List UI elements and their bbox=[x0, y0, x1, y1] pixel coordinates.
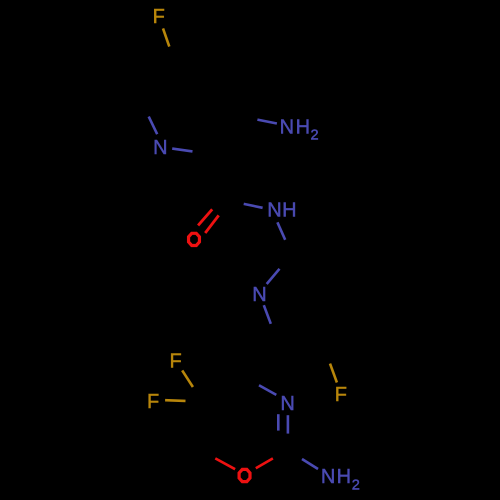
svg-text:F: F bbox=[169, 351, 181, 373]
svg-text:N: N bbox=[153, 137, 167, 159]
bond O2-C2'' (half, oxygen side) bbox=[256, 458, 273, 468]
bond C5''-F4 (half, fluorine side) bbox=[165, 399, 185, 402]
bond N3=C2'' outer line (half, nitrogen side) bbox=[287, 415, 290, 433]
svg-text:F: F bbox=[335, 384, 347, 406]
bond N2-C2' (half, nitrogen side) bbox=[267, 269, 280, 284]
bond C2''-NH2 (half, nitrogen side) bbox=[302, 459, 318, 469]
bond NH-C2' (half, nitrogen side) bbox=[277, 222, 285, 240]
svg-text:F: F bbox=[147, 391, 159, 413]
svg-text:N: N bbox=[280, 393, 294, 415]
svg-text:H: H bbox=[296, 116, 310, 138]
bond N3=C2'' inner line (half, nitrogen side) bbox=[277, 414, 280, 430]
bond N1-C2 (half, nitrogen side) bbox=[172, 149, 192, 152]
bond C7=O1 line b (half, oxygen side) bbox=[205, 215, 219, 233]
svg-text:2: 2 bbox=[311, 128, 319, 144]
bond C6-N1 (half, nitrogen side) bbox=[149, 117, 158, 135]
bond C5''-F3 (half, fluorine side) bbox=[182, 370, 193, 387]
bond C6''-O2 (half, oxygen side) bbox=[215, 458, 235, 469]
atom O2 (oxazine ring oxygen) bbox=[239, 469, 250, 481]
svg-text:N: N bbox=[267, 200, 281, 222]
bond C4''-N3 (half, nitrogen side) bbox=[259, 385, 276, 395]
bond C5-F1 (half, fluorine side) bbox=[163, 28, 169, 46]
bond C7=O1 line a (half, oxygen side) bbox=[198, 209, 212, 225]
atom O1 (carbonyl oxygen) bbox=[189, 233, 200, 245]
svg-text:N: N bbox=[280, 116, 294, 138]
svg-text:2: 2 bbox=[352, 477, 360, 493]
bond N2-C5' (half, nitrogen side) bbox=[264, 305, 271, 324]
svg-text:H: H bbox=[337, 466, 351, 488]
bond C7-NH (half, nitrogen side) bbox=[244, 204, 263, 208]
svg-text:N: N bbox=[321, 466, 335, 488]
bond C4'-F2 (half, fluorine side) bbox=[330, 364, 337, 383]
svg-text:N: N bbox=[252, 284, 266, 306]
bond C3-NH2 (half, nitrogen side) bbox=[257, 120, 277, 124]
svg-text:H: H bbox=[282, 200, 296, 222]
svg-text:F: F bbox=[153, 6, 165, 28]
